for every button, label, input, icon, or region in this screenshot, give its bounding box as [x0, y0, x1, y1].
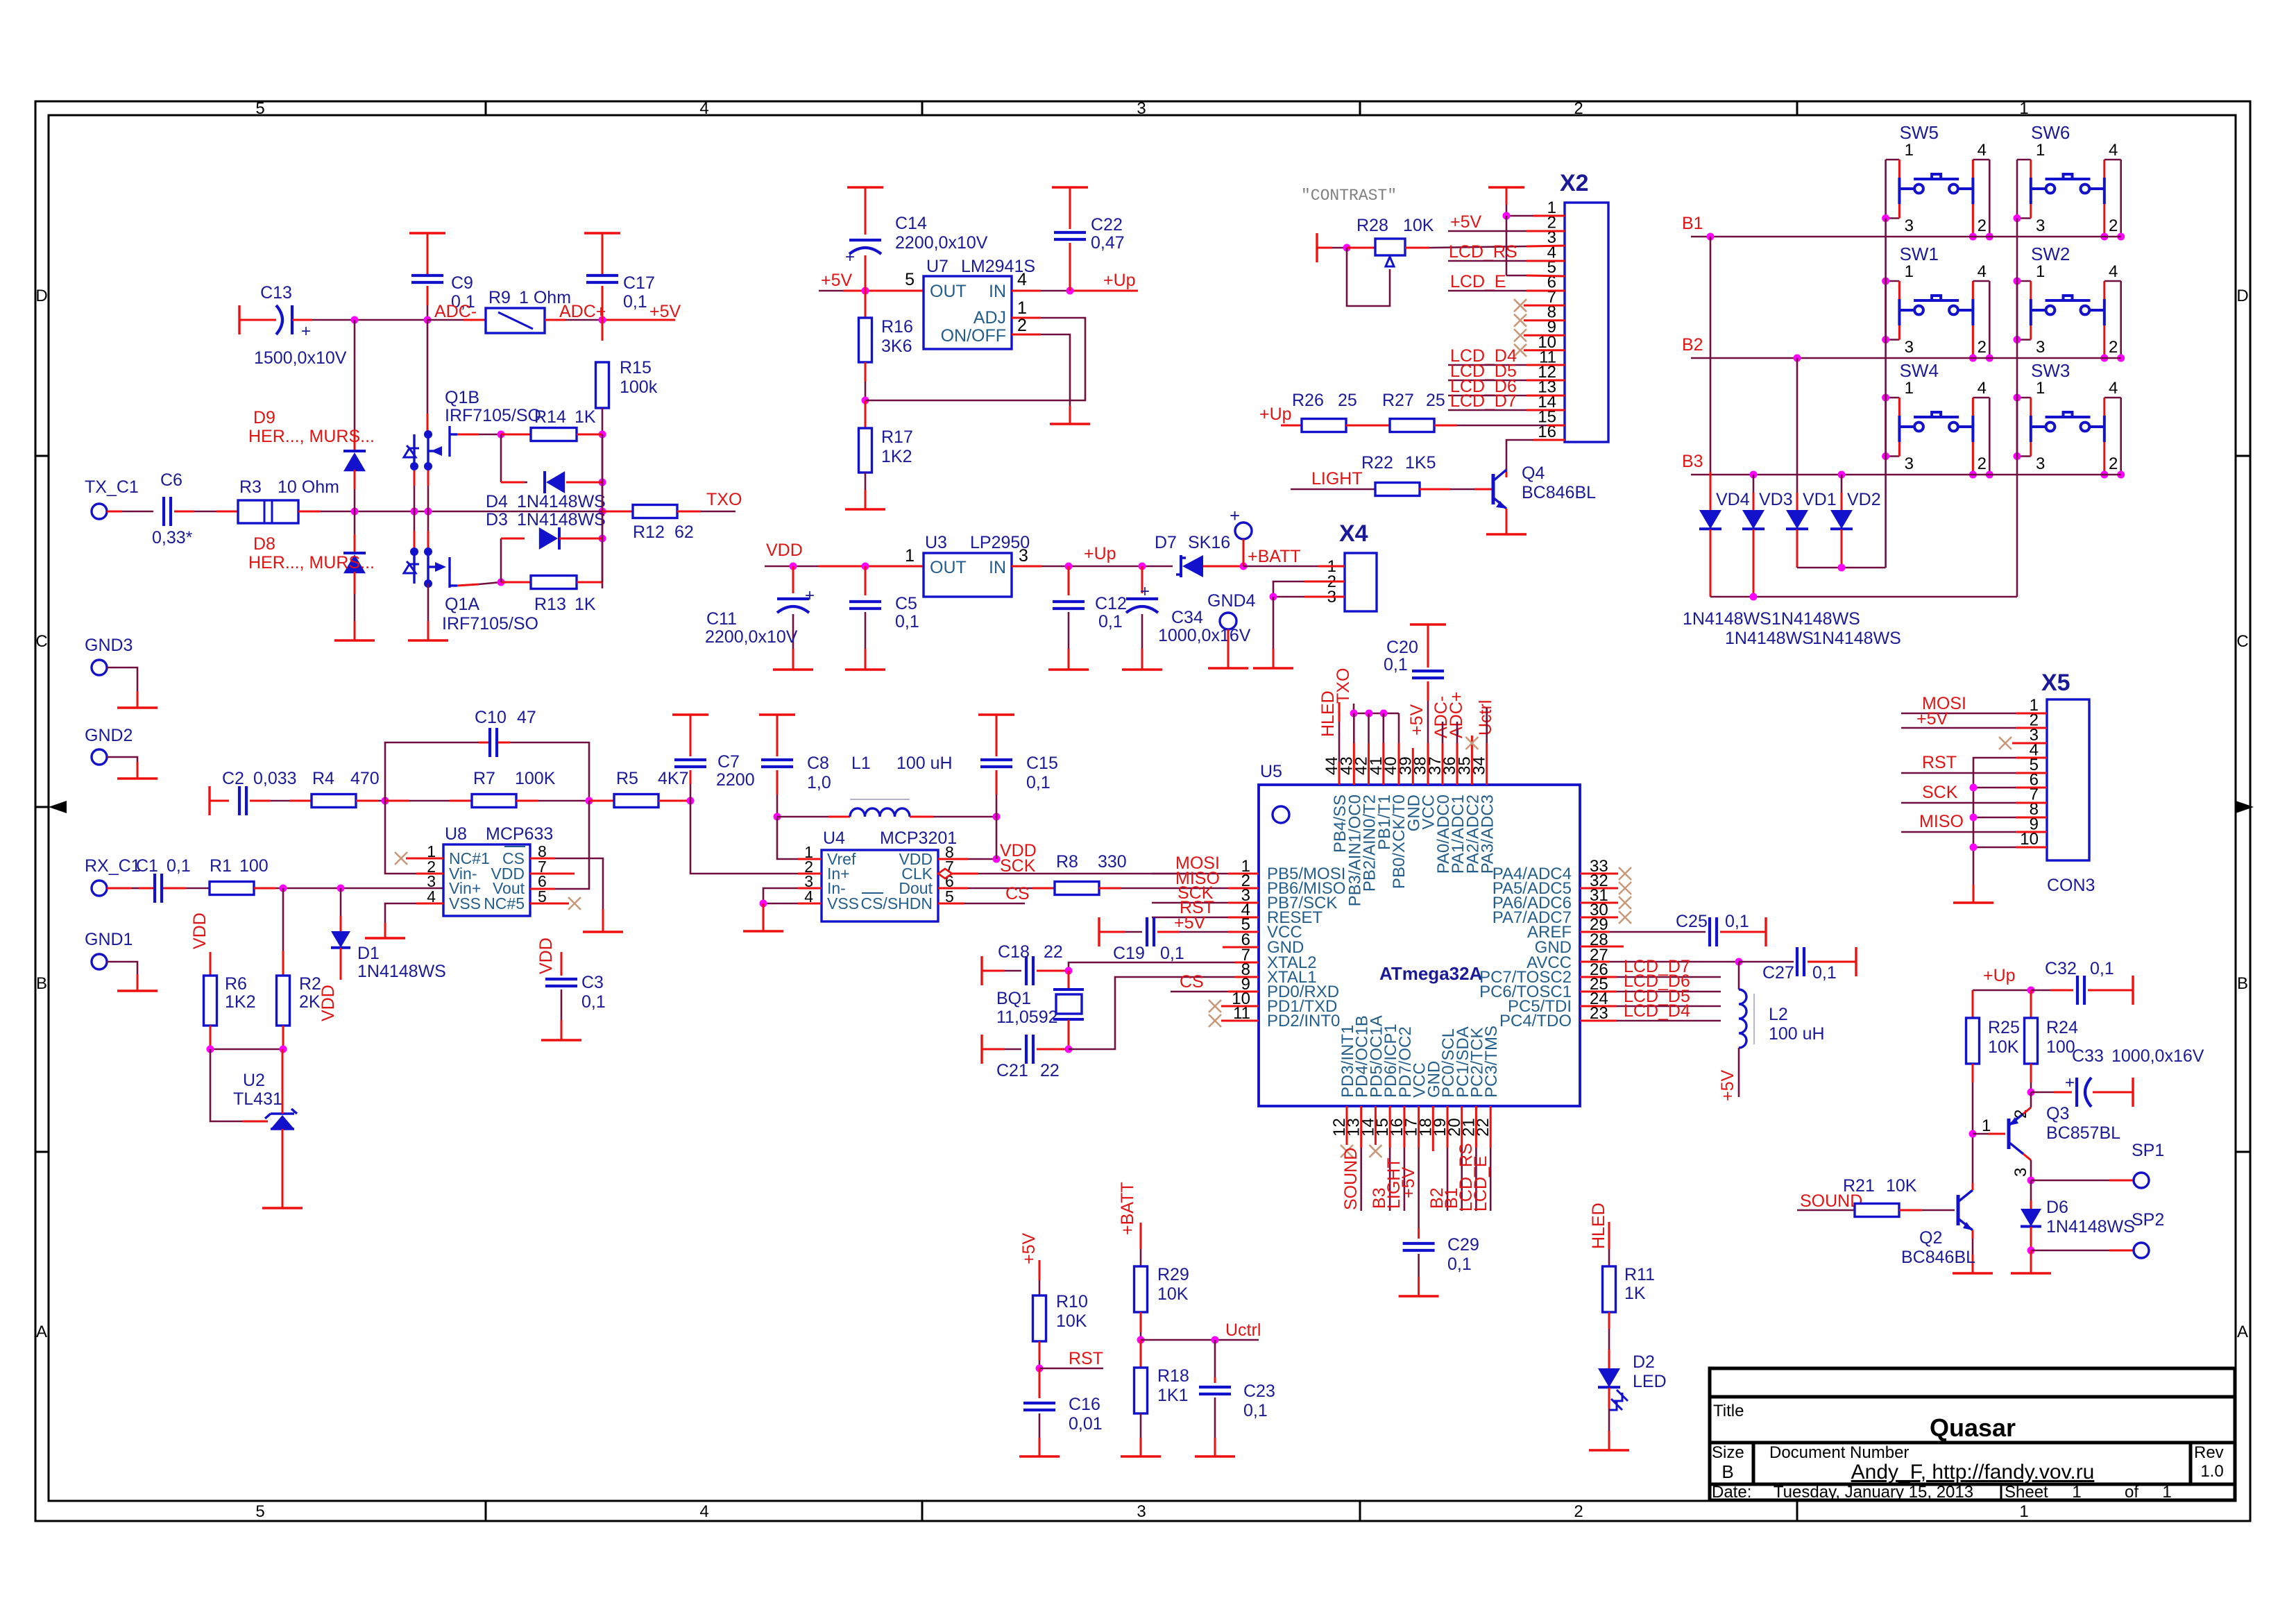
diode D4 1N4148WS [500, 434, 502, 482]
U5 pin11 NC [1221, 1020, 1259, 1022]
svg-text:RX_C1: RX_C1 [85, 856, 141, 876]
wire gnd bus down [1973, 885, 1975, 903]
junction [2117, 471, 2125, 479]
svg-text:RST: RST [1069, 1349, 1103, 1368]
svg-text:IN: IN [989, 282, 1006, 301]
junction [599, 508, 606, 516]
capacitor C22 0,47 [1052, 186, 1088, 188]
wire TX_C1 to C6 [107, 511, 122, 513]
inductor L2 100 uH [1738, 962, 1740, 989]
resistor R4 470 [312, 794, 356, 808]
svg-text:10K: 10K [1157, 1284, 1189, 1304]
svg-text:0,1: 0,1 [1098, 612, 1123, 631]
ground under C5 [845, 668, 885, 670]
junction [1750, 593, 1758, 601]
resistor R7 100K [385, 800, 409, 802]
junction [2014, 214, 2021, 222]
wire Q1A drain to ground [427, 584, 430, 621]
wire R25 to Q3 base node [1972, 1064, 1974, 1082]
capacitor C29 0,1 [1418, 1228, 1420, 1239]
svg-text:2: 2 [1574, 1502, 1583, 1521]
svg-text:1K: 1K [575, 407, 596, 427]
svg-text:1: 1 [905, 546, 915, 566]
svg-text:SOUND: SOUND [1341, 1148, 1361, 1210]
wire U4 pin1 Vref to C8 [798, 858, 822, 860]
svg-text:C29: C29 [1447, 1235, 1479, 1255]
capacitor C6 0,33* [162, 497, 165, 526]
svg-text:1000,0x16V: 1000,0x16V [2111, 1046, 2204, 1066]
capacitor C34 1000,0x16V [1141, 566, 1143, 593]
svg-text:R28: R28 [1357, 216, 1388, 235]
svg-text:1K: 1K [1624, 1284, 1646, 1303]
wire ON/OFF pin2 [1012, 334, 1041, 336]
svg-text:Title: Title [1713, 1402, 1744, 1420]
junction [586, 797, 593, 805]
svg-text:SW6: SW6 [2031, 122, 2070, 143]
resistor R8 330 [1055, 882, 1099, 895]
junction [1735, 958, 1743, 966]
svg-text:R27: R27 [1382, 391, 1414, 410]
svg-text:VSS: VSS [449, 894, 481, 912]
svg-text:PC4/TDO: PC4/TDO [1499, 1012, 1572, 1030]
svg-text:1,0: 1,0 [807, 773, 831, 792]
svg-text:100K: 100K [515, 769, 556, 788]
svg-text:2200,0x10V: 2200,0x10V [895, 233, 988, 253]
capacitor C21 22 [980, 1035, 983, 1064]
svg-text:VDD: VDD [536, 937, 556, 974]
svg-text:CON3: CON3 [2047, 876, 2095, 895]
net label Uctrl [1141, 1339, 1259, 1341]
svg-text:+5V: +5V [649, 302, 681, 321]
ground under D6 [2011, 1272, 2051, 1274]
svg-text:C7: C7 [717, 752, 740, 772]
svg-text:of: of [2125, 1483, 2138, 1502]
svg-text:1N4148WS: 1N4148WS [357, 962, 446, 981]
U5 pin6 GND stub [1223, 946, 1259, 949]
svg-text:X5: X5 [2041, 670, 2070, 696]
wire diode rail VD1/VD2 to column 1 [1797, 567, 1886, 569]
svg-text:100 uH: 100 uH [1769, 1024, 1825, 1044]
svg-text:1N4148WS: 1N4148WS [1771, 609, 1860, 629]
wire X4 pin2/3 tie [1304, 581, 1345, 583]
wire U8 pin2 Vin- to R4/R7 node [416, 873, 443, 875]
svg-text:R22: R22 [1361, 453, 1393, 473]
svg-text:470: 470 [350, 769, 380, 788]
svg-text:330: 330 [1098, 852, 1127, 872]
svg-text:D4: D4 [486, 492, 508, 511]
svg-text:R15: R15 [620, 358, 652, 377]
wire +BATT to X4 pin1 [1243, 566, 1318, 568]
svg-text:2K: 2K [299, 992, 321, 1012]
junction [993, 813, 1001, 821]
junction [1065, 1046, 1073, 1053]
junction [498, 579, 505, 586]
capacitor C13 1500,0x10V [238, 305, 240, 334]
capacitor C14 2200,0x10V [847, 186, 883, 188]
svg-text:1: 1 [1982, 1116, 1991, 1135]
junction [599, 316, 606, 324]
svg-text:B: B [1721, 1461, 1733, 1482]
svg-text:+: + [845, 248, 855, 266]
junction [1882, 394, 1889, 402]
svg-text:LCD_E: LCD_E [1471, 1155, 1490, 1212]
U8 pin1 NC [406, 858, 443, 860]
svg-text:1K2: 1K2 [881, 447, 912, 466]
svg-text:+: + [1140, 582, 1150, 601]
svg-text:1N4148WS: 1N4148WS [1812, 629, 1901, 648]
svg-text:C19: C19 [1113, 944, 1145, 963]
wire Q1A gate to R13 [457, 584, 479, 586]
wire C6 to R3 [174, 511, 194, 513]
diode D6 1N4148WS [2030, 1180, 2032, 1200]
transistor Q3 BC857BL [1973, 1133, 1988, 1135]
svg-text:C20: C20 [1386, 638, 1418, 657]
svg-text:R2: R2 [299, 974, 321, 994]
svg-text:2: 2 [2109, 454, 2118, 473]
svg-text:HER..., MURS...: HER..., MURS... [248, 427, 375, 446]
svg-text:C21: C21 [996, 1061, 1028, 1080]
svg-text:2200,0x10V: 2200,0x10V [705, 627, 798, 647]
svg-text:PA3/ADC3: PA3/ADC3 [1479, 794, 1497, 874]
svg-text:C13: C13 [260, 283, 292, 303]
X5 pin4 to gnd bus [2016, 757, 2047, 759]
junction [1882, 452, 1889, 460]
net label B1 / wire U5 pin20 [1461, 1106, 1463, 1148]
junction [2100, 233, 2108, 241]
svg-text:U5: U5 [1260, 762, 1282, 781]
svg-text:R17: R17 [881, 427, 913, 447]
junction [207, 1046, 214, 1053]
svg-text:0,033: 0,033 [253, 769, 297, 788]
svg-text:L2: L2 [1769, 1005, 1788, 1024]
ground under X4 [1253, 667, 1293, 669]
ground under D8 [334, 639, 375, 641]
svg-text:VD4: VD4 [1716, 490, 1750, 509]
wire R28 to X2 pin3 [1405, 247, 1429, 249]
capacitor C11 2200,0x10V [792, 566, 794, 593]
junction [1970, 844, 1978, 851]
svg-text:1N4148WS: 1N4148WS [517, 492, 606, 511]
svg-text:100: 100 [239, 856, 269, 876]
junction [2117, 355, 2125, 362]
svg-text:+5V: +5V [821, 271, 853, 290]
svg-text:1: 1 [1905, 262, 1914, 281]
wire R3 to TX node [298, 511, 321, 513]
svg-text:R14: R14 [534, 407, 566, 427]
svg-text:4: 4 [1978, 262, 1987, 281]
junction [1211, 1336, 1219, 1344]
junction [599, 535, 606, 543]
svg-text:Document Number: Document Number [1769, 1443, 1909, 1462]
svg-text:TXO: TXO [706, 490, 742, 509]
ground under U8 [365, 937, 405, 939]
svg-text:D6: D6 [2046, 1198, 2068, 1217]
X5 pin8 to gnd bus [2016, 817, 2047, 819]
diode VD1 1N4148WS [1796, 358, 1798, 493]
svg-text:"CONTRAST": "CONTRAST" [1301, 187, 1397, 205]
ground under C3 [541, 1039, 581, 1041]
svg-text:C17: C17 [623, 273, 655, 293]
junction [1986, 233, 1993, 241]
junction [1503, 212, 1511, 220]
capacitor C5 0,1 [865, 566, 867, 595]
junction [993, 856, 1001, 863]
transistor Q1B IRF7105/SO (P-MOSFET) [427, 320, 429, 414]
wire R6/R2 tie [210, 1026, 212, 1049]
wire diode rail VD4/VD3 to column 2 [1710, 596, 2017, 598]
svg-text:+5V: +5V [1450, 212, 1482, 232]
svg-text:4: 4 [1017, 270, 1027, 289]
capacitor C10 47 (feedback) [385, 742, 479, 801]
svg-text:Uctrl: Uctrl [1476, 700, 1495, 736]
svg-text:Uctrl: Uctrl [1225, 1320, 1261, 1340]
svg-text:1: 1 [2019, 1502, 2028, 1521]
junction [1350, 710, 1358, 717]
wire Q1B gate to R14 [457, 434, 479, 436]
svg-text:SW2: SW2 [2031, 244, 2070, 264]
svg-text:+5V: +5V [1407, 704, 1427, 736]
capacitor C18 22 [980, 956, 983, 985]
svg-text:4: 4 [2109, 379, 2118, 398]
capacitor C17 0,1 [584, 232, 620, 234]
svg-text:3: 3 [2012, 1168, 2030, 1177]
svg-text:11,0592: 11,0592 [996, 1008, 1058, 1027]
svg-text:U2: U2 [243, 1071, 265, 1090]
svg-text:LCD_RS: LCD_RS [1449, 242, 1517, 262]
svg-text:TXO: TXO [1334, 668, 1353, 704]
U5 pin39 GND stub [1412, 748, 1414, 785]
junction [1065, 563, 1073, 570]
svg-text:0,1: 0,1 [1384, 655, 1408, 674]
svg-text:A: A [2237, 1323, 2248, 1341]
wire X2 pin1 [1506, 215, 1533, 217]
wire ADJ feedback [865, 318, 1085, 400]
svg-text:2: 2 [1978, 338, 1987, 357]
svg-text:VDD: VDD [766, 541, 803, 560]
svg-text:D3: D3 [486, 510, 508, 529]
wire VDD to U3 OUT [765, 566, 819, 568]
svg-text:0,1: 0,1 [1812, 963, 1837, 983]
svg-text:D8: D8 [253, 534, 275, 554]
capacitor C19 0,1 / +5V to U5 pin5 [1098, 917, 1100, 946]
mcu U5 ATmega32A [1259, 785, 1580, 1106]
ground under D2 [1589, 1449, 1629, 1451]
svg-text:25: 25 [1338, 391, 1357, 410]
wire U4 pin6 Dout to R8 [938, 887, 968, 890]
wire U7 IN to +Up [1012, 290, 1041, 292]
resistor R1 100 [163, 887, 186, 890]
junction [1366, 710, 1373, 717]
svg-text:C8: C8 [807, 754, 829, 773]
svg-text:25: 25 [1426, 391, 1445, 410]
svg-text:1: 1 [2036, 141, 2045, 160]
ground under R17 [845, 508, 885, 510]
svg-text:U4: U4 [823, 829, 845, 848]
capacitor C27 0,1 [1739, 961, 1794, 963]
svg-text:X4: X4 [1339, 520, 1368, 547]
svg-text:Quasar: Quasar [1930, 1413, 2016, 1442]
junction [1882, 336, 1889, 343]
junction [382, 797, 389, 805]
svg-text:R12: R12 [633, 522, 665, 542]
svg-text:4: 4 [699, 99, 708, 118]
svg-text:SP2: SP2 [2132, 1210, 2164, 1230]
svg-text:C32: C32 [2045, 959, 2077, 978]
svg-text:PD2/INT0: PD2/INT0 [1267, 1012, 1340, 1030]
svg-text:3: 3 [2036, 454, 2045, 473]
diode VD4 1N4148WS [1710, 237, 1712, 472]
svg-text:R25: R25 [1988, 1018, 2020, 1037]
svg-text:Q1B: Q1B [445, 388, 479, 407]
junction [2014, 278, 2021, 285]
wire U8 pin4 VSS to ground [416, 903, 443, 905]
wire R9 to +5V [545, 319, 566, 321]
svg-text:0,1: 0,1 [581, 992, 606, 1012]
svg-text:C27: C27 [1762, 963, 1794, 983]
resistor R12 62 [602, 511, 633, 513]
svg-text:ADC-: ADC- [434, 302, 477, 321]
resistor R14 1K [501, 434, 531, 436]
junction [2027, 1177, 2035, 1184]
capacitor C20 0,1 / +5V wire to U5 pin38 VCC [1410, 623, 1446, 625]
svg-text:Size: Size [1712, 1443, 1744, 1462]
svg-text:VDD: VDD [190, 912, 210, 949]
junction [498, 431, 505, 439]
svg-text:R6: R6 [225, 974, 247, 994]
svg-text:1N4148WS: 1N4148WS [1683, 609, 1771, 629]
svg-text:1: 1 [2072, 1483, 2081, 1502]
wire U8 pin8 CS to ground [530, 858, 555, 860]
junction [687, 797, 695, 805]
svg-text:GND2: GND2 [85, 726, 133, 745]
wire R4 to node A [356, 800, 378, 802]
svg-text:C23: C23 [1243, 1382, 1275, 1401]
junction [1380, 710, 1388, 717]
regulator U7 LM2941S [924, 276, 1012, 349]
junction [2100, 355, 2108, 362]
capacitor C16 0,01 [1039, 1368, 1041, 1398]
svg-text:1500,0x10V: 1500,0x10V [254, 348, 347, 368]
junction [599, 431, 606, 439]
svg-text:+5V: +5V [1916, 709, 1948, 729]
svg-text:U7: U7 [926, 257, 949, 276]
capacitor C7 2200 [672, 713, 708, 715]
junction [1969, 233, 1977, 241]
U8 pin7 VDD stub [530, 873, 575, 875]
svg-text:SW4: SW4 [1900, 360, 1939, 381]
svg-text:0,1: 0,1 [1725, 912, 1749, 931]
svg-text:R24: R24 [2046, 1018, 2078, 1037]
svg-text:2200: 2200 [716, 770, 755, 790]
svg-text:IRF7105/SO: IRF7105/SO [442, 614, 538, 634]
svg-text:Q3: Q3 [2046, 1104, 2069, 1123]
net label B3 / wire U5 pin15 [1389, 1106, 1391, 1148]
potentiometer R28 10K [1316, 233, 1318, 262]
svg-text:R7: R7 [473, 769, 495, 788]
junction [1707, 233, 1715, 241]
svg-text:VDD: VDD [318, 985, 338, 1021]
svg-text:R8: R8 [1056, 852, 1078, 872]
junction [760, 900, 767, 908]
ground under U8 CS [583, 931, 623, 933]
junction [1036, 1365, 1044, 1373]
switch column wires [1885, 219, 1887, 568]
svg-text:C18: C18 [998, 942, 1030, 962]
svg-text:NC#5: NC#5 [484, 894, 525, 912]
transistor Q2 BC846BL [1957, 1195, 1960, 1225]
junction [1970, 784, 1978, 792]
svg-text:10K: 10K [1886, 1176, 1917, 1196]
resistor R24 100 [2030, 990, 2032, 1019]
svg-text:VD3: VD3 [1759, 490, 1793, 509]
svg-text:4: 4 [2109, 262, 2118, 281]
svg-text:Q4: Q4 [1522, 464, 1545, 483]
svg-text:C14: C14 [895, 214, 927, 233]
net label TXO [677, 511, 701, 513]
svg-text:MCP633: MCP633 [486, 824, 553, 844]
svg-text:RST: RST [1922, 753, 1957, 772]
svg-text:1: 1 [2019, 99, 2028, 118]
svg-text:C: C [35, 632, 47, 651]
svg-text:100: 100 [2046, 1037, 2075, 1057]
svg-text:4: 4 [1978, 379, 1987, 398]
svg-text:Rev: Rev [2194, 1443, 2224, 1462]
junction [1969, 1130, 1977, 1138]
net label SOUND / wire U5 pin13 [1360, 1106, 1362, 1148]
svg-text:0,1: 0,1 [2090, 959, 2114, 978]
capacitor C8 1,0 [759, 713, 795, 715]
svg-text:D: D [35, 287, 47, 305]
svg-text:B2: B2 [1682, 335, 1703, 355]
svg-text:SW3: SW3 [2031, 360, 2070, 381]
svg-text:+: + [2065, 1073, 2075, 1092]
svg-text:1.0: 1.0 [2200, 1462, 2223, 1481]
svg-text:0,33*: 0,33* [152, 528, 193, 547]
wire R10 to RST node [1039, 1341, 1041, 1360]
junction [1750, 471, 1758, 479]
junction [862, 287, 869, 295]
opamp U8 MCP633 [443, 844, 530, 916]
svg-text:GND4: GND4 [1207, 591, 1256, 611]
svg-text:3: 3 [1137, 1502, 1146, 1521]
ground under C12 [1048, 668, 1089, 670]
svg-text:10K: 10K [1403, 216, 1434, 235]
capacitor C33 1000,0x16V [2031, 1091, 2054, 1094]
junction [1986, 471, 1993, 479]
svg-text:HLED: HLED [1589, 1203, 1608, 1249]
svg-text:100 uH: 100 uH [896, 754, 953, 773]
ground under X5 [1953, 901, 1993, 903]
ground under GND3 [117, 706, 158, 708]
svg-text:CS: CS [1005, 884, 1030, 903]
net label LCD_E / wire U5 pin22 [1490, 1106, 1492, 1148]
svg-text:L1: L1 [851, 754, 871, 773]
svg-text:BC846BL: BC846BL [1522, 483, 1596, 502]
resistor R9 1 Ohm (shunt box) [486, 308, 545, 333]
ground under C11 [773, 668, 813, 670]
junction [1270, 593, 1277, 601]
svg-text:A: A [36, 1323, 47, 1341]
svg-text:HER..., MURS...: HER..., MURS... [248, 553, 375, 572]
svg-text:0,1: 0,1 [1160, 944, 1184, 963]
wire D6 to ground [2030, 1250, 2032, 1273]
capacitor C23 0,1 [1214, 1340, 1216, 1377]
svg-text:0,1: 0,1 [623, 292, 647, 312]
svg-text:1N4148WS: 1N4148WS [2046, 1217, 2135, 1237]
wire XTAL1 to U5 pin8 [1069, 977, 1235, 1049]
wire R29 to Uctrl node [1140, 1312, 1142, 1332]
svg-text:R3: R3 [239, 477, 262, 497]
